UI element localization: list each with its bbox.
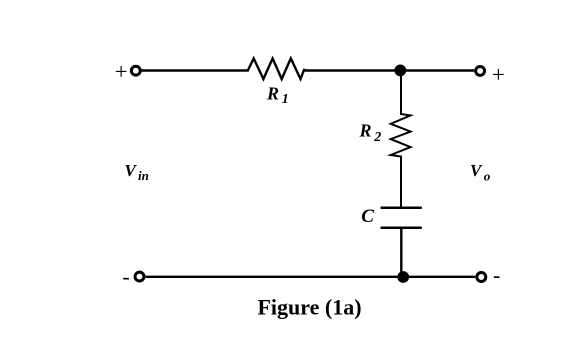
svg-text:+: + — [492, 62, 505, 87]
svg-text:Figure (1a): Figure (1a) — [257, 295, 361, 320]
svg-text:R: R — [266, 83, 279, 103]
svg-text:V: V — [125, 161, 138, 180]
svg-text:V: V — [470, 161, 483, 180]
svg-text:C: C — [361, 206, 374, 227]
svg-text:2: 2 — [373, 130, 381, 145]
svg-text:-: - — [493, 262, 500, 287]
svg-text:+: + — [115, 59, 128, 84]
svg-text:in: in — [138, 168, 149, 183]
svg-text:o: o — [484, 169, 491, 184]
svg-text:R: R — [359, 121, 372, 141]
svg-text:1: 1 — [282, 92, 289, 107]
svg-text:-: - — [122, 264, 129, 289]
